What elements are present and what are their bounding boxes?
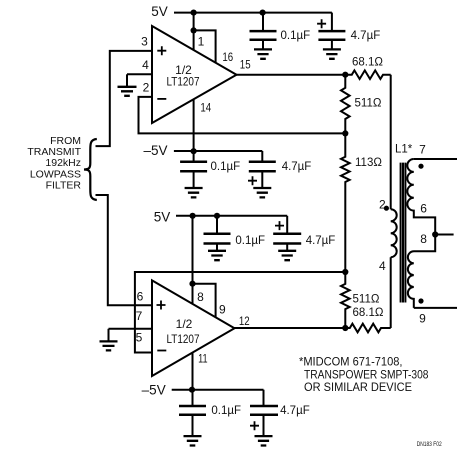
svg-text:6: 6 [420, 202, 427, 216]
svg-text:2: 2 [379, 198, 386, 212]
svg-text:68.1Ω: 68.1Ω [352, 57, 383, 69]
svg-text:5V: 5V [151, 4, 168, 19]
svg-text:0.1µF: 0.1µF [235, 235, 265, 247]
svg-text:–5V: –5V [143, 143, 167, 158]
svg-text:*MIDCOM 671-7108,: *MIDCOM 671-7108, [299, 357, 403, 369]
svg-text:4: 4 [379, 259, 386, 273]
svg-text:113Ω: 113Ω [355, 157, 382, 169]
svg-text:511Ω: 511Ω [355, 98, 382, 110]
svg-text:LT1207: LT1207 [167, 332, 200, 346]
svg-text:4.7µF: 4.7µF [351, 30, 381, 42]
svg-text:FILTER: FILTER [46, 179, 82, 191]
svg-text:2: 2 [143, 81, 150, 95]
svg-text:L1*: L1* [395, 144, 413, 156]
svg-text:4.7µF: 4.7µF [280, 405, 310, 417]
svg-text:12: 12 [239, 314, 250, 328]
svg-text:–5V: –5V [142, 383, 166, 398]
svg-text:7: 7 [419, 143, 426, 157]
svg-text:0.1µF: 0.1µF [281, 30, 311, 42]
svg-text:15: 15 [240, 58, 251, 72]
svg-text:7: 7 [136, 309, 143, 323]
svg-text:14: 14 [200, 101, 211, 115]
svg-text:TRANSPOWER SMPT-308: TRANSPOWER SMPT-308 [304, 369, 429, 381]
svg-text:4.7µF: 4.7µF [282, 161, 312, 173]
svg-text:6: 6 [137, 290, 144, 304]
svg-text:3: 3 [141, 34, 148, 48]
svg-text:8: 8 [420, 232, 427, 246]
svg-text:0.1µF: 0.1µF [211, 405, 241, 417]
svg-text:LT1207: LT1207 [167, 74, 200, 88]
svg-text:1/2: 1/2 [176, 317, 193, 331]
svg-text:9: 9 [419, 312, 426, 326]
svg-text:8: 8 [197, 290, 204, 304]
svg-text:68.1Ω: 68.1Ω [353, 307, 384, 319]
svg-text:5V: 5V [154, 210, 171, 225]
svg-text:0.1µF: 0.1µF [211, 161, 241, 173]
svg-text:11: 11 [198, 352, 208, 366]
svg-text:9: 9 [219, 302, 226, 316]
svg-text:OR SIMILAR DEVICE: OR SIMILAR DEVICE [304, 382, 412, 394]
svg-text:4: 4 [142, 58, 149, 72]
svg-text:5: 5 [136, 331, 143, 345]
svg-text:DN183 F02: DN183 F02 [417, 441, 442, 448]
svg-text:1: 1 [198, 35, 205, 49]
svg-text:4.7µF: 4.7µF [306, 235, 336, 247]
svg-text:16: 16 [222, 50, 233, 64]
svg-text:511Ω: 511Ω [353, 294, 380, 306]
